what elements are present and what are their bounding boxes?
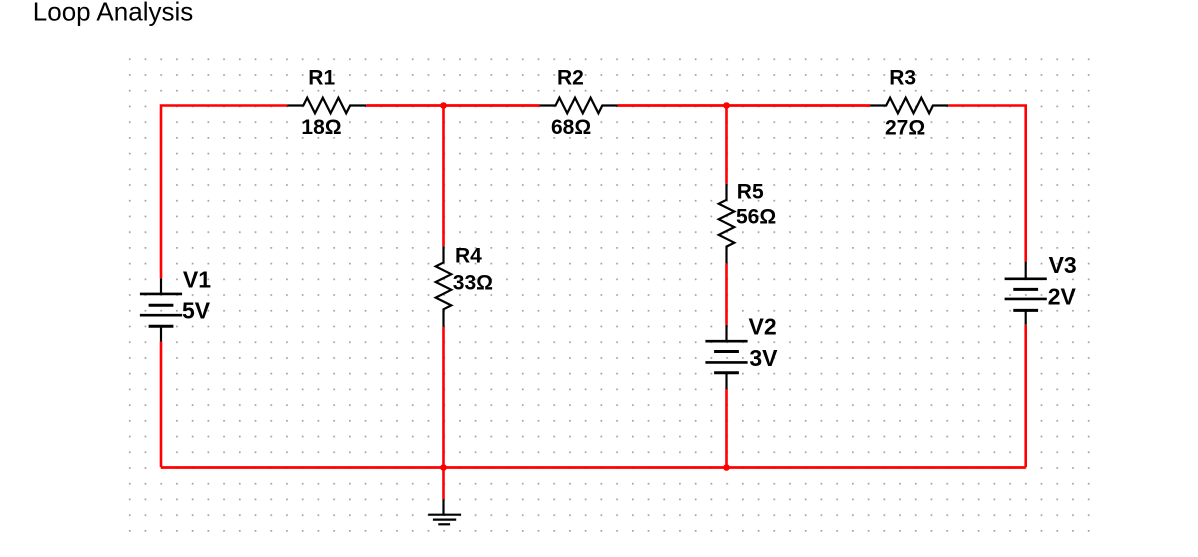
node C junction dot	[440, 464, 447, 471]
battery V1 5V	[140, 267, 211, 342]
wire: V2 negative terminal down to bottom node D	[725, 389, 728, 467]
wire: V1 negative terminal down to bottom-left corner	[160, 342, 163, 467]
battery V2 3V	[705, 313, 778, 389]
ground symbol	[428, 499, 461, 524]
svg-text:R1: R1	[308, 67, 335, 90]
resistor R2 68ohm	[539, 67, 617, 140]
svg-text:R5: R5	[737, 180, 764, 203]
wire: R1 pin 2 to R2 pin 1 (through node A)	[366, 104, 539, 107]
svg-text:V3: V3	[1049, 252, 1077, 278]
svg-text:R2: R2	[557, 67, 584, 90]
svg-text:Loop Analysis: Loop Analysis	[33, 0, 193, 26]
svg-text:56Ω: 56Ω	[736, 206, 776, 229]
wire: V3 negative terminal down to bottom-right corner	[1024, 325, 1027, 467]
node A junction dot	[440, 102, 447, 109]
wire: V1 positive terminal up and across to R1 pin 1	[161, 106, 287, 279]
svg-text:5V: 5V	[182, 298, 211, 324]
svg-text:68Ω: 68Ω	[551, 116, 591, 139]
wire: node A down to R4 pin 1	[442, 106, 445, 247]
wire: R2 pin 2 to R3 pin 1 (through node B)	[618, 104, 871, 107]
wire: R3 pin 2 across and down to V3 positive terminal	[948, 106, 1025, 262]
node D junction dot	[723, 464, 730, 471]
svg-text:27Ω: 27Ω	[885, 117, 925, 140]
node B junction dot	[723, 102, 730, 109]
svg-text:R4: R4	[455, 245, 482, 268]
wire: node B down to R5 pin 1	[725, 106, 728, 184]
svg-text:2V: 2V	[1048, 284, 1077, 310]
svg-text:R3: R3	[889, 67, 916, 90]
svg-text:18Ω: 18Ω	[301, 116, 341, 139]
svg-text:V1: V1	[183, 267, 211, 293]
wire: R5 pin 2 to V2 positive terminal	[725, 263, 728, 324]
svg-text:V2: V2	[749, 313, 777, 339]
resistor R3 27ohm	[870, 67, 948, 140]
battery V3 2V	[1005, 252, 1077, 325]
resistor R1 18ohm	[287, 67, 366, 140]
wire: bottom horizontal net	[161, 466, 1026, 469]
svg-text:33Ω: 33Ω	[453, 272, 493, 295]
resistor R4 33ohm (vertical)	[436, 245, 493, 327]
resistor R5 56ohm (vertical)	[719, 180, 777, 263]
wire: node C stub down to ground	[442, 467, 445, 499]
wire: R4 pin 2 down to bottom node C	[442, 327, 445, 467]
svg-text:3V: 3V	[749, 345, 778, 371]
